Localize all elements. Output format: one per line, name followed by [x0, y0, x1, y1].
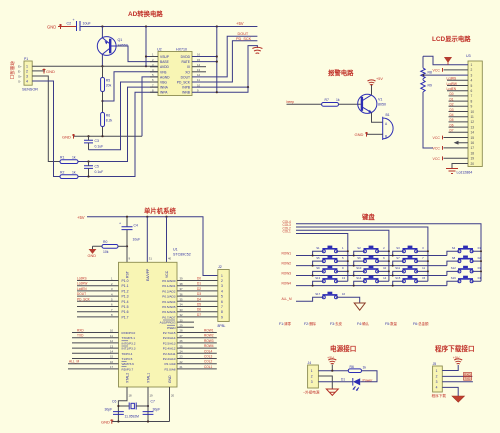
svg-text:R8: R8 [428, 71, 432, 75]
svg-text:F4:确认: F4:确认 [357, 321, 370, 326]
node INNB rail end [216, 91, 218, 93]
svg-text:J2: J2 [218, 265, 222, 269]
svg-text:8P8L: 8P8L [218, 324, 226, 328]
svg-text:8: 8 [471, 99, 473, 103]
svg-text:D1: D1 [197, 282, 201, 286]
svg-text:DOUT: DOUT [77, 292, 86, 296]
svg-text:11.0592M: 11.0592M [125, 415, 140, 419]
svg-text:GND: GND [168, 375, 172, 383]
wire pin1 to left rail [423, 56, 468, 64]
svg-text:B1: B1 [386, 113, 390, 117]
svg-text:7: 7 [221, 305, 223, 309]
svg-text:ROW2: ROW2 [204, 334, 214, 338]
svg-text:GND: GND [355, 132, 364, 137]
svg-text:U1: U1 [173, 248, 178, 252]
node +5V junction [331, 370, 333, 372]
wire P0.0 D0 [177, 277, 218, 281]
svg-text:AGND: AGND [160, 75, 170, 79]
svg-text:J5: J5 [433, 362, 437, 366]
node C3 top [87, 135, 89, 137]
svg-text:RATE: RATE [181, 60, 190, 64]
MCU U1 STC89C52 [119, 248, 191, 388]
wire pin16 [455, 142, 468, 144]
svg-text:1k: 1k [363, 366, 367, 370]
svg-text:19: 19 [150, 394, 154, 398]
svg-text:Lcd12864: Lcd12864 [457, 171, 473, 175]
wire XTAL1 pin 19 [148, 387, 153, 422]
wire ROW1 line [296, 255, 447, 257]
key S5 [312, 256, 349, 267]
resistor R8 (zigzag) [421, 68, 432, 79]
svg-text:P2.6/A14: P2.6/A14 [163, 336, 176, 340]
svg-text:报警电路: 报警电路 [328, 68, 354, 77]
svg-text:Power: Power [363, 378, 374, 382]
svg-text:ROW3: ROW3 [204, 339, 214, 343]
svg-text:S13: S13 [315, 276, 320, 280]
svg-text:VCC: VCC [433, 136, 441, 140]
svg-text:VCC: VCC [165, 270, 169, 278]
resistor R0 [102, 240, 118, 254]
svg-text:S11: S11 [395, 266, 400, 270]
svg-text:35: 35 [180, 298, 184, 302]
node pin3/R8 [423, 74, 425, 76]
ground (LCD top) [445, 57, 451, 64]
key S9 [312, 266, 349, 277]
wire P3.2 [72, 339, 119, 343]
capacitor C2 [67, 18, 92, 31]
svg-text:XI: XI [187, 65, 190, 69]
svg-text:8.2k: 8.2k [106, 119, 113, 123]
svg-text:ROW1: ROW1 [204, 329, 214, 333]
ground (power iface) [326, 389, 338, 395]
node E+/VSUP riser [145, 65, 147, 67]
wire EA to box [146, 217, 148, 263]
wire P0.5 D5 [177, 303, 218, 307]
svg-text:13: 13 [342, 276, 346, 280]
node rail/C4 [126, 216, 128, 218]
svg-text:16: 16 [110, 360, 114, 364]
capacitor C7 [143, 400, 161, 415]
wire VCC to box [166, 217, 168, 263]
wire PD_SCK net [192, 41, 257, 82]
svg-text:F3: F3 [478, 266, 482, 270]
svg-text:S3: S3 [396, 246, 400, 250]
resistor R6 [101, 113, 113, 127]
svg-text:P2.7/A15: P2.7/A15 [163, 331, 176, 335]
svg-text:14: 14 [471, 131, 475, 135]
svg-text:12: 12 [110, 339, 114, 343]
svg-text:10: 10 [110, 329, 114, 333]
wire P1.3 DOUT [77, 292, 119, 296]
resistor R5 [101, 78, 112, 92]
svg-text:WR/P3.6: WR/P3.6 [122, 362, 135, 366]
crystal Y1 [125, 403, 140, 419]
key S11 [392, 266, 429, 277]
svg-text:LcdEN: LcdEN [77, 287, 87, 291]
svg-text:GND: GND [88, 254, 97, 258]
svg-text:D2: D2 [197, 287, 201, 291]
svg-text:SENSOR: SENSOR [22, 88, 38, 92]
svg-text:D0: D0 [197, 277, 201, 281]
svg-text:14: 14 [110, 350, 114, 354]
node C5 top [87, 160, 89, 162]
svg-text:XO: XO [185, 70, 190, 74]
wire R2 to INPA [78, 92, 158, 176]
svg-text:F2:删除: F2:删除 [304, 321, 317, 326]
node rail-DVDD [216, 25, 218, 27]
wire +5V rail [80, 26, 257, 28]
svg-text:3: 3 [436, 380, 438, 384]
wire ROW2 line [296, 265, 447, 267]
svg-text:26: 26 [180, 339, 184, 343]
svg-text:COL1: COL1 [204, 365, 213, 369]
capacitor C5 [84, 162, 103, 177]
node rail-Q1 [101, 25, 103, 27]
svg-text:29: 29 [180, 324, 184, 328]
svg-text:COL3: COL3 [204, 355, 213, 359]
wire INNB [192, 87, 248, 92]
node R5/R6 [101, 100, 103, 102]
wire P3.6 ALL_M [68, 360, 119, 364]
svg-text:5: 5 [221, 295, 223, 299]
svg-text:P0.4/AD4: P0.4/AD4 [162, 300, 176, 304]
wire P2.6 ROW2 [177, 334, 217, 338]
ground GND (R0) [88, 246, 103, 258]
wire P0.7 D7 [177, 313, 218, 317]
svg-text:P0.1/AD1: P0.1/AD1 [162, 284, 176, 288]
svg-text:DOUT: DOUT [181, 75, 190, 79]
svg-text:R6: R6 [106, 114, 110, 118]
svg-text:2: 2 [471, 68, 473, 72]
svg-text:C4: C4 [134, 224, 138, 228]
svg-text:+5V: +5V [236, 21, 244, 26]
wire S- down to R2 [32, 81, 60, 177]
svg-text:COL4: COL4 [204, 349, 213, 353]
svg-text:XTAL2: XTAL2 [126, 373, 130, 383]
svg-text:S17: S17 [315, 292, 320, 296]
wire emitter to buzzer [372, 113, 383, 123]
wire pin2 [444, 69, 469, 71]
svg-text:T0/P3.4: T0/P3.4 [122, 352, 133, 356]
wire pin2 to GND [32, 70, 45, 72]
wire LED to pin3 [318, 381, 352, 383]
svg-text:6: 6 [471, 89, 473, 93]
wire COL2 line [296, 230, 389, 281]
buzzer B1 [383, 113, 393, 140]
svg-text:12: 12 [471, 120, 475, 124]
wire P1.4 PD_SCK [77, 297, 119, 301]
wire crystal right [136, 405, 148, 407]
label VCC pin17 [433, 146, 443, 150]
wire crystal ground rail [112, 421, 170, 423]
svg-text:ROW3: ROW3 [282, 271, 292, 275]
wire R8-R9 [422, 79, 424, 80]
svg-text:P1.6: P1.6 [122, 310, 129, 314]
resistor R9 (zigzag) [421, 80, 432, 92]
wire INPB to ground [192, 46, 257, 88]
svg-text:20: 20 [171, 394, 175, 398]
node rail/EA [146, 216, 148, 218]
svg-text:VCC: VCC [433, 68, 441, 72]
svg-text:电源接口: 电源接口 [330, 344, 356, 353]
svg-text:P1: P1 [24, 57, 28, 61]
pin stub PSEN [177, 324, 194, 328]
svg-text:INNB: INNB [182, 91, 191, 95]
svg-text:40: 40 [168, 257, 172, 261]
svg-text:称重接口: 称重接口 [9, 61, 16, 80]
svg-text:10: 10 [471, 110, 475, 114]
svg-text:E+: E+ [18, 64, 22, 68]
svg-text:5: 5 [471, 84, 473, 88]
node R6/AGND [101, 135, 103, 137]
wire pin7 [449, 95, 469, 97]
svg-text:ALL_M: ALL_M [69, 360, 79, 364]
power +5V (power iface) [327, 356, 336, 371]
svg-text:39: 39 [180, 277, 184, 281]
svg-text:VCC: VCC [433, 146, 441, 150]
svg-text:D5: D5 [197, 303, 201, 307]
LED D1 Power [341, 378, 373, 391]
wire DOUT net [192, 36, 257, 77]
node crystal right [147, 405, 149, 407]
svg-text:S8: S8 [452, 256, 456, 260]
svg-text:21: 21 [180, 365, 184, 369]
wire pin5 [447, 85, 468, 87]
svg-text:F3:去皮: F3:去皮 [330, 321, 343, 326]
key S12 [447, 266, 482, 276]
svg-text:DVDD: DVDD [181, 55, 191, 59]
svg-text:P0.3/AD3: P0.3/AD3 [162, 295, 176, 299]
svg-text:程序下载接口: 程序下载接口 [434, 344, 475, 353]
svg-text:单片机系统: 单片机系统 [144, 206, 177, 215]
transistor Q1 [97, 37, 128, 56]
svg-text:8050: 8050 [378, 103, 386, 107]
svg-text:1: 1 [436, 369, 438, 373]
svg-text:P2.1/A9: P2.1/A9 [164, 362, 175, 366]
svg-text:2: 2 [26, 70, 28, 74]
ground (U2 INPB) [252, 47, 262, 53]
wire R10 to LED [360, 371, 377, 382]
wire P3.1 TXD [72, 334, 119, 338]
wire pin20 to ground [452, 164, 468, 169]
svg-text:32: 32 [180, 313, 184, 317]
svg-text:20: 20 [471, 162, 475, 166]
svg-text:14: 14 [383, 276, 387, 280]
wire left rail top [422, 56, 424, 68]
ground GND (crystal) [101, 419, 113, 424]
pin stubs U2 left [150, 57, 158, 93]
svg-text:PSEN: PSEN [167, 326, 175, 330]
svg-text:T1/P3.5: T1/P3.5 [122, 357, 133, 361]
wire ALL to ground [336, 297, 360, 303]
pin stub XI [192, 66, 206, 68]
svg-text:18: 18 [129, 394, 133, 398]
svg-text:11: 11 [110, 334, 113, 338]
svg-text:ROW1: ROW1 [282, 251, 292, 255]
svg-text:4: 4 [471, 79, 473, 83]
svg-text:2: 2 [221, 279, 223, 283]
svg-text:P1.4: P1.4 [122, 300, 129, 304]
svg-text:VBG: VBG [160, 81, 167, 85]
svg-text:U3: U3 [466, 54, 471, 58]
svg-text:36: 36 [180, 292, 184, 296]
node C6 bottom [117, 420, 119, 422]
wire P2.7 ROW1 [177, 329, 217, 333]
svg-text:23: 23 [180, 355, 184, 359]
wire COL4 line [296, 224, 481, 281]
wire VFB tap [103, 72, 159, 101]
svg-text:13: 13 [110, 344, 114, 348]
svg-text:S1: S1 [316, 246, 320, 250]
key S6 [353, 256, 390, 267]
svg-text:11: 11 [422, 266, 425, 270]
svg-text:GND: GND [47, 24, 56, 29]
svg-text:4: 4 [221, 289, 223, 293]
svg-text:B: B [385, 135, 387, 139]
svg-text:+5V: +5V [376, 77, 383, 81]
svg-text:D4: D4 [197, 297, 201, 301]
svg-text:33: 33 [180, 308, 184, 312]
resistor R10 [348, 365, 366, 373]
svg-text:P1.1: P1.1 [122, 284, 129, 288]
wire P2.0 COL1 [177, 365, 217, 369]
key S2 [353, 246, 390, 257]
wire P0.4 D4 [177, 297, 218, 301]
wire P3.7 [68, 365, 119, 369]
svg-text:C5: C5 [95, 165, 99, 169]
label VCC pin2 [433, 68, 443, 72]
svg-text:PD_SCK: PD_SCK [236, 37, 252, 41]
svg-text:XTAL1: XTAL1 [147, 373, 151, 383]
svg-text:EA/VPP: EA/VPP [146, 268, 150, 281]
svg-text:9: 9 [221, 315, 223, 319]
svg-text:R7: R7 [325, 98, 329, 102]
node DVDD [216, 55, 218, 57]
svg-text:P1.3: P1.3 [122, 295, 129, 299]
wire VSUP riser [146, 27, 158, 67]
ground GND (AGND rail) [62, 134, 75, 139]
key S10 [353, 266, 390, 277]
svg-text:1k: 1k [72, 170, 76, 174]
svg-text:Q1: Q1 [118, 38, 123, 42]
svg-text:+: + [73, 18, 75, 22]
wire P3.0 RXD [72, 329, 119, 333]
wire Q1 emitter to rail [101, 27, 103, 38]
ground (keyboard ALL) [354, 303, 365, 310]
wire DVDD to rail [192, 27, 217, 93]
svg-text:3: 3 [26, 75, 28, 79]
svg-text:34: 34 [180, 303, 184, 307]
wire ALL_M line [296, 297, 324, 301]
ground GND (at C2) [47, 24, 76, 29]
wire VBG via C3 [89, 82, 159, 150]
svg-text:0.1uF: 0.1uF [95, 170, 104, 174]
key S8 [447, 256, 482, 266]
wire pin17 [444, 147, 469, 149]
svg-text:6: 6 [221, 300, 223, 304]
svg-text:20k: 20k [106, 84, 112, 88]
wire base Q1 to BASE pin [116, 46, 158, 62]
key S7 [392, 256, 429, 267]
svg-text:30pF: 30pF [153, 408, 161, 412]
wire P3.5 [72, 355, 119, 359]
pin stub ALE [177, 318, 194, 322]
svg-text:RST: RST [126, 271, 130, 278]
svg-text:4: 4 [26, 80, 28, 84]
svg-text:S6: S6 [357, 256, 361, 260]
svg-text:J4: J4 [308, 361, 312, 365]
sensor connector P1 [18, 57, 38, 92]
svg-text:TXD: TXD [464, 377, 471, 381]
power +5V (download) [453, 356, 463, 364]
svg-text:S9: S9 [316, 266, 320, 270]
svg-text:3: 3 [221, 284, 223, 288]
svg-text:V1: V1 [378, 98, 382, 102]
svg-text:LcdRW: LcdRW [77, 282, 87, 286]
ground GND (sensor pin2) [43, 69, 56, 75]
wire COL1 line [296, 234, 348, 282]
svg-text:S16: S16 [451, 276, 456, 280]
svg-text:30pF: 30pF [105, 408, 113, 412]
svg-text:1: 1 [311, 369, 313, 373]
svg-text:R5: R5 [106, 79, 110, 83]
wire P2.1 COL2 [177, 360, 217, 364]
svg-text:INT0/P3.2: INT0/P3.2 [122, 341, 136, 345]
svg-text:8: 8 [221, 310, 223, 314]
svg-text:1: 1 [471, 63, 473, 67]
wire pin3 TXD [442, 377, 473, 382]
wire pin1 to +5V [442, 365, 458, 371]
svg-text:beep: beep [287, 100, 295, 104]
wire pin4 [447, 79, 468, 81]
wire P2.4 ROW4 [177, 344, 217, 348]
wire GND to buzzer [367, 133, 383, 135]
svg-text:S-: S- [18, 80, 21, 84]
svg-text:VSUP: VSUP [160, 55, 170, 59]
wire P0.2 D2 [177, 287, 218, 291]
svg-text:S5: S5 [316, 256, 320, 260]
svg-text:PD_SCK: PD_SCK [77, 297, 91, 301]
svg-text:1k: 1k [72, 155, 76, 159]
svg-text:16: 16 [471, 141, 475, 145]
wire ROW3 line [296, 275, 447, 277]
wire P2.5 ROW3 [177, 339, 217, 343]
svg-text:P0.2/AD2: P0.2/AD2 [162, 289, 176, 293]
wire RATE [192, 61, 217, 63]
svg-text:AD转换电路: AD转换电路 [128, 9, 163, 18]
svg-text:BASE: BASE [160, 60, 170, 64]
power +5V (alarm) [368, 77, 384, 85]
svg-text:15: 15 [422, 276, 426, 280]
svg-text:22: 22 [180, 360, 184, 364]
node E+/Q1 [101, 65, 103, 67]
svg-text:GND: GND [62, 134, 71, 139]
pin numbers U2 right [197, 53, 201, 93]
node INPB/INNB [247, 86, 249, 88]
svg-text:~外接电源: ~外接电源 [303, 389, 320, 394]
wire R0 to RST [118, 245, 127, 247]
svg-text:16: 16 [342, 292, 346, 296]
wire P1.2 LcdEN [77, 287, 119, 291]
wire +5V rail to J2 [87, 217, 218, 276]
svg-text:28: 28 [180, 329, 184, 333]
svg-text:ROW2: ROW2 [282, 262, 292, 266]
svg-text:4: 4 [436, 386, 438, 390]
svg-text:18: 18 [471, 151, 475, 155]
svg-text:9: 9 [471, 105, 473, 109]
wire P1.7 [77, 313, 119, 317]
wire AGND up to pin [142, 77, 158, 136]
